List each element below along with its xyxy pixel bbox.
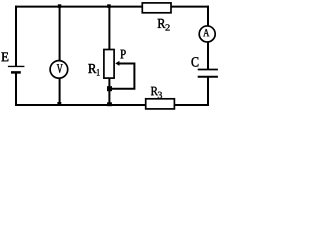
node: top junction of voltmeter branch [58,4,62,8]
voltmeter letter V [57,64,63,73]
node: bottom junction of R1 branch [107,102,112,106]
label C (capacitor) [191,57,198,66]
wire: left side lower segment [15,73,17,106]
wire: right side from top corner to capacitor [207,6,209,70]
wire: bottom bus [15,104,209,106]
label R2: subscript 2 [165,24,169,30]
wire: R1 potentiometer branch vertical [108,7,110,105]
capacitor C: top plate [198,69,218,71]
label R1: letter R [88,64,96,73]
ammeter letter A [203,29,209,36]
wire: right side from capacitor to bottom corner [207,77,209,106]
node: top junction of R1 branch [107,4,111,8]
wire: wiper return (right, down, left to R1 bottom lead) [109,64,134,89]
resistor R1 (potentiometer body) [104,50,114,79]
resistor R3 [146,99,175,109]
capacitor C: bottom plate [198,76,218,78]
ammeter circle [199,26,215,42]
voltmeter circle [50,61,68,79]
label P (wiper) [120,50,125,59]
wire: top bus [15,6,209,8]
label R2: letter R [158,19,166,28]
label E (battery emf) [1,52,8,61]
node: bottom junction of voltmeter branch [57,102,61,105]
resistor R2 [142,3,171,13]
wire: voltmeter branch vertical [59,7,61,105]
wiper arrowhead pointing at R1 body [115,61,119,66]
label R3: subscript 3 [158,92,162,99]
battery E: long thin plate [8,65,25,67]
label R1: subscript 1 [97,69,100,76]
label R3: letter R [151,87,158,95]
wire: left side upper segment [15,6,17,67]
battery E: short thick plate [11,71,21,74]
node: wiper return junction on R1 bottom lead [107,86,112,91]
